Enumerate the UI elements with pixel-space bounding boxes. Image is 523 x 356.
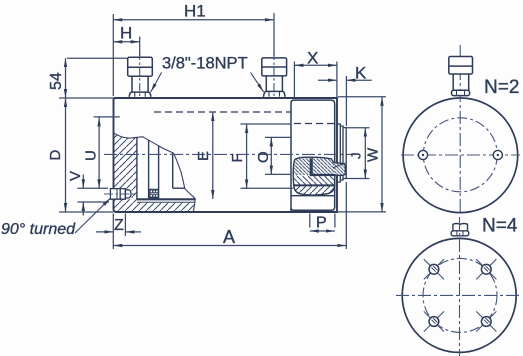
svg-text:H: H	[120, 24, 132, 43]
F dim	[241, 123, 292, 125]
left port centerline	[139, 52, 141, 98]
D dim	[59, 211, 113, 213]
svg-text:U: U	[83, 150, 100, 161]
seal block in slot	[150, 189, 159, 198]
right port centerline	[273, 52, 275, 98]
break line (freehand section boundary)	[113, 132, 195, 211]
end-cap inner rounded rect	[291, 100, 335, 212]
plug centerline	[104, 193, 135, 195]
body outline	[114, 98, 338, 212]
plug slot white cutout	[109, 189, 132, 200]
svg-text:90° turned: 90° turned	[1, 221, 76, 238]
svg-text:N=4: N=4	[482, 216, 518, 237]
54 dim	[67, 57, 128, 59]
svg-text:K: K	[355, 64, 367, 83]
svg-text:E: E	[195, 151, 212, 161]
hatch top boundary line	[137, 201, 195, 203]
chamfer line on poke	[334, 163, 346, 168]
right port bolt	[262, 58, 287, 97]
hatched left wall section	[114, 133, 137, 212]
J dim	[346, 127, 370, 129]
piston dark bar	[310, 158, 313, 175]
heavy borders	[310, 174, 336, 176]
H1 dim line	[113, 19, 274, 21]
K dim (outside arrows)	[345, 76, 347, 126]
gland lower white block line	[291, 195, 335, 197]
svg-text:A: A	[223, 227, 235, 247]
N=2 hole right	[493, 150, 502, 159]
leader 3/8-18NPT right	[251, 72, 264, 92]
N=4 holes with 45deg ticks	[424, 259, 497, 331]
svg-text:N=2: N=2	[484, 77, 519, 98]
gland tip nested rects	[337, 124, 346, 182]
leader 3/8-18NPT left	[151, 72, 162, 92]
bore vertical lines	[136, 137, 138, 199]
A dim	[345, 182, 347, 249]
svg-text:F: F	[229, 153, 246, 162]
Z dim (outside arrows)	[112, 214, 114, 250]
W dim	[338, 96, 386, 98]
hidden bore dashed line right section	[294, 123, 336, 125]
N=2 crosshair	[401, 154, 520, 156]
piston / gland nut hatched blob	[293, 157, 346, 195]
X dim	[293, 62, 295, 98]
N=2 hole left	[418, 150, 427, 159]
main axis centerline	[104, 153, 352, 155]
E dim	[212, 112, 214, 199]
U dim	[94, 116, 120, 118]
N=4 crosshair	[396, 294, 521, 296]
svg-text:H1: H1	[184, 2, 206, 21]
H dim	[139, 37, 141, 57]
N=4 outer circle	[402, 238, 516, 352]
plug (90deg turned)	[110, 189, 131, 200]
svg-text:Z: Z	[114, 217, 124, 234]
svg-text:3/8"-18NPT: 3/8"-18NPT	[162, 55, 248, 73]
left port bolt	[128, 57, 153, 97]
svg-text:P: P	[316, 215, 327, 232]
svg-text:O: O	[255, 151, 272, 163]
H1 extension lines	[112, 14, 114, 96]
svg-text:54: 54	[48, 72, 65, 90]
P dim	[309, 214, 311, 228]
svg-text:W: W	[365, 147, 382, 162]
N=2 top fitting	[449, 57, 473, 96]
blob outline	[293, 157, 345, 195]
svg-text:X: X	[307, 49, 318, 68]
hidden bore dashed line left section	[154, 111, 291, 113]
step line	[173, 187, 185, 189]
svg-text:V: V	[67, 171, 84, 181]
N=2 outer circle	[403, 98, 518, 213]
N=2 bolt circle	[423, 118, 497, 192]
N=4 bolt circle	[423, 258, 497, 332]
bore floor thick line	[137, 198, 195, 200]
svg-text:D: D	[47, 150, 64, 161]
V dim (outside arrows)	[78, 187, 109, 189]
hatched bottom wall strip	[137, 202, 195, 211]
small fitting between views	[451, 224, 469, 236]
leader 90deg turned	[75, 198, 110, 233]
svg-text:J: J	[349, 153, 364, 160]
O dim	[265, 136, 292, 138]
